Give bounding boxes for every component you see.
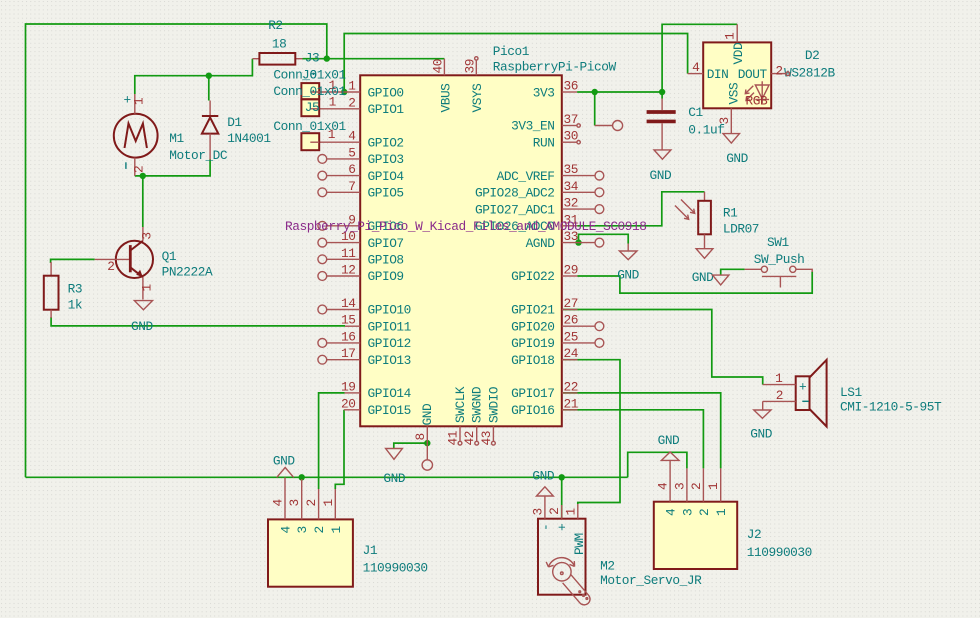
ground IC pin8	[383, 449, 405, 486]
pin 8 GND	[413, 403, 435, 470]
svg-text:Q1: Q1	[162, 249, 177, 264]
svg-text:11: 11	[341, 246, 356, 261]
svg-text:Conn_01x01: Conn_01x01	[273, 119, 346, 134]
svg-text:3: 3	[680, 509, 695, 516]
svg-text:22: 22	[564, 379, 578, 394]
LED D2 WS2812B body	[703, 42, 835, 108]
motor M2 Motor_Servo_JR body	[538, 519, 702, 595]
junction 3V3 node B	[659, 89, 665, 95]
svg-text:21: 21	[564, 396, 579, 411]
connector J2 110990030	[654, 502, 812, 569]
svg-text:4: 4	[664, 508, 679, 516]
node sheet field text purple	[285, 219, 646, 234]
svg-text:GND: GND	[383, 471, 405, 486]
pin 39 VSYS	[462, 57, 485, 113]
wire top-left perimeter net	[26, 24, 327, 477]
svg-text:4: 4	[656, 482, 671, 490]
wire 3V3 junction to C1 top	[661, 92, 663, 99]
pin 16 GPIO12	[318, 329, 411, 351]
pin 31 GPIO26_ADC0	[475, 212, 579, 234]
svg-text:3V3_EN: 3V3_EN	[511, 119, 554, 134]
svg-text:GND: GND	[131, 319, 153, 334]
pin 43 SWDIO	[479, 386, 502, 445]
svg-text:1: 1	[329, 526, 344, 534]
LED symbol inside D2	[745, 81, 769, 108]
svg-text:SWDIO: SWDIO	[486, 386, 501, 423]
svg-text:GPIO22: GPIO22	[511, 269, 554, 284]
svg-text:32: 32	[564, 196, 578, 211]
svg-text:GND: GND	[658, 433, 680, 448]
junction GND bus J1 node	[299, 474, 305, 480]
svg-text:M2: M2	[600, 559, 614, 574]
svg-text:WS2812B: WS2812B	[784, 65, 835, 80]
pin 3 of M2 (-)	[530, 496, 553, 531]
ground Q1 emitter	[131, 301, 153, 334]
connector J3 Conn_01x01	[273, 51, 346, 100]
svg-text:GPIO8: GPIO8	[368, 253, 404, 268]
pin 27 GPIO21	[511, 296, 578, 318]
pin 3 of J1	[287, 479, 310, 534]
wire junction to Q1 collector	[142, 176, 144, 227]
svg-text:1: 1	[329, 95, 337, 110]
pin 1 of J2	[706, 468, 729, 516]
svg-text:27: 27	[564, 296, 578, 311]
wire GPIO26_ADC0 to R1 top	[578, 192, 705, 226]
pin 1 of J1	[321, 489, 344, 534]
svg-text:GPIO14: GPIO14	[368, 386, 412, 401]
resistor R2 value 18	[252, 18, 302, 65]
svg-text:1k: 1k	[68, 298, 83, 313]
pin 25 GPIO19	[511, 329, 604, 351]
svg-text:12: 12	[341, 263, 355, 278]
svg-text:17: 17	[341, 346, 355, 361]
svg-text:GPIO2: GPIO2	[368, 135, 404, 150]
pin 1 GPIO0	[344, 79, 403, 101]
pin 2 DOUT of D2	[771, 64, 789, 79]
svg-text:CMI-1210-5-95T: CMI-1210-5-95T	[840, 399, 942, 414]
servo horn inside M2	[546, 558, 590, 605]
wire J3 junction to VBUS	[303, 58, 445, 60]
svg-text:30: 30	[564, 129, 578, 144]
svg-text:GPIO21: GPIO21	[511, 303, 555, 318]
wire GND bus to M2 pin2	[561, 477, 563, 518]
wire junction to D1 top	[208, 76, 210, 101]
svg-text:VDD: VDD	[731, 42, 746, 64]
svg-text:1: 1	[321, 499, 336, 507]
wire 3V3 to VDD riser	[662, 24, 737, 92]
svg-text:PWM: PWM	[572, 533, 587, 555]
pin 29 GPIO22	[511, 263, 578, 285]
svg-text:1: 1	[714, 508, 729, 516]
pin 15 GPIO11	[341, 313, 412, 335]
svg-text:M1: M1	[169, 131, 184, 146]
svg-text:SWGND: SWGND	[470, 386, 485, 423]
ground AGND net	[617, 244, 639, 283]
svg-text:RUN: RUN	[533, 135, 555, 150]
svg-text:J2: J2	[747, 527, 761, 542]
svg-text:RGB: RGB	[746, 94, 768, 109]
wire 3V3 net	[577, 91, 662, 93]
wire GPIO17 to J2 pin1	[563, 393, 721, 469]
svg-text:R2: R2	[268, 18, 282, 33]
svg-text:1: 1	[132, 97, 147, 105]
junction J3 node	[324, 55, 330, 61]
pin 1 of M2 (PWM)	[563, 504, 587, 555]
pin 2 of J2	[689, 468, 712, 516]
svg-text:GND: GND	[692, 270, 714, 285]
junction M1 top node	[206, 73, 212, 79]
svg-text:42: 42	[462, 431, 477, 445]
wire M1 bottom to D1 bottom	[135, 160, 210, 176]
svg-text:2: 2	[348, 95, 355, 110]
wire GPIO22 to SW1	[578, 272, 813, 294]
svg-text:110990030: 110990030	[363, 561, 428, 576]
svg-text:4: 4	[692, 60, 700, 75]
pin 21 GPIO16	[511, 396, 579, 418]
pin 35 ADC_VREF	[497, 162, 604, 184]
svg-text:20: 20	[341, 396, 355, 411]
svg-text:34: 34	[564, 179, 579, 194]
pin 4 GPIO2	[319, 129, 403, 151]
pin 26 GPIO20	[511, 313, 604, 335]
svg-text:15: 15	[341, 313, 355, 328]
ground J1 pin4	[273, 454, 295, 478]
svg-text:GPIO16: GPIO16	[511, 403, 554, 418]
svg-text:GPIO1: GPIO1	[368, 102, 405, 117]
svg-text:GPIO20: GPIO20	[511, 319, 554, 334]
pin 40 VBUS	[431, 59, 454, 113]
pin 10 GPIO7	[318, 229, 404, 251]
svg-text:4: 4	[348, 129, 356, 144]
svg-text:8: 8	[413, 433, 428, 440]
svg-text:GPIO0: GPIO0	[368, 85, 404, 100]
pin 30 RUN	[533, 129, 581, 151]
svg-text:DOUT: DOUT	[738, 67, 768, 82]
svg-text:SW1: SW1	[767, 235, 789, 250]
svg-text:SWCLK: SWCLK	[453, 386, 468, 423]
svg-text:2: 2	[132, 166, 147, 173]
svg-text:VBUS: VBUS	[438, 83, 453, 113]
diode D1 1N4001	[202, 101, 271, 160]
svg-text:2: 2	[697, 509, 712, 516]
svg-text:3: 3	[672, 483, 687, 490]
pin 37 3V3_EN	[511, 112, 580, 134]
svg-text:1: 1	[723, 32, 738, 40]
svg-text:GPIO4: GPIO4	[368, 169, 405, 184]
junction AGND node	[575, 239, 581, 245]
svg-text:Raspberry_Pi_Pico_W_Kicad_File: Raspberry_Pi_Pico_W_Kicad_Files_and_AMOD…	[285, 219, 646, 234]
svg-text:1: 1	[706, 482, 721, 490]
wire GND pin8 to ground	[394, 443, 428, 448]
svg-text:Motor_DC: Motor_DC	[169, 148, 228, 163]
svg-text:2: 2	[775, 64, 782, 79]
pin 34 GPIO28_ADC2	[475, 179, 604, 201]
svg-text:4: 4	[279, 526, 294, 534]
pin 5 GPIO3	[318, 145, 404, 167]
wire R3 bottom to GPIO11	[51, 317, 345, 326]
motor M1 Motor_DC	[114, 93, 228, 176]
svg-text:ADC_VREF: ADC_VREF	[497, 169, 555, 184]
svg-text:5: 5	[348, 145, 355, 160]
svg-text:6: 6	[348, 162, 355, 177]
pin 42 SWGND	[462, 386, 485, 445]
svg-text:2: 2	[689, 483, 704, 490]
pin 4 DIN of D2	[688, 60, 704, 75]
ground SW1	[713, 275, 729, 285]
svg-text:Motor_Servo_JR: Motor_Servo_JR	[600, 573, 702, 588]
svg-text:GND: GND	[750, 427, 772, 442]
wire 3V3 junction drop to 3V3_EN stub	[594, 92, 596, 126]
svg-text:D1: D1	[227, 115, 242, 130]
wire Q1 base to R3 top	[51, 259, 95, 263]
pin 9 GPIO6	[318, 212, 404, 234]
pin 14 GPIO10	[318, 296, 411, 318]
svg-text:J5: J5	[305, 100, 319, 115]
svg-text:GPIO3: GPIO3	[368, 152, 404, 167]
wire GPIO15 to J1 pin1	[335, 410, 344, 489]
op-amp U1 Pico1 RaspberryPi-PicoW body	[360, 44, 616, 426]
svg-text:VSS: VSS	[727, 82, 742, 104]
svg-text:40: 40	[431, 59, 446, 73]
ground LS1	[750, 410, 772, 442]
svg-text:GND: GND	[726, 151, 748, 166]
pin 2 of J1	[304, 489, 327, 534]
svg-text:2: 2	[312, 526, 327, 533]
pin 22 GPIO17	[511, 379, 578, 401]
svg-text:29: 29	[564, 263, 578, 278]
svg-text:2: 2	[107, 259, 114, 274]
connector J1 110990030	[268, 519, 428, 586]
svg-text:35: 35	[564, 162, 578, 177]
svg-text:GPIO11: GPIO11	[368, 319, 412, 334]
wire GPIO21 to LS1 pin1	[563, 310, 763, 385]
svg-text:1: 1	[139, 284, 154, 292]
svg-text:1: 1	[775, 371, 783, 386]
svg-text:3: 3	[139, 232, 154, 239]
pin 2 GPIO1	[319, 95, 404, 117]
svg-text:GPIO17: GPIO17	[511, 386, 554, 401]
ground D2 VSS	[723, 134, 749, 166]
svg-text:GPIO9: GPIO9	[368, 269, 404, 284]
svg-text:3: 3	[530, 508, 545, 515]
svg-text:1N4001: 1N4001	[227, 131, 271, 146]
pin 4 of J2	[656, 460, 679, 516]
svg-text:GND: GND	[617, 268, 639, 283]
svg-text:1: 1	[563, 508, 578, 516]
svg-text:VSYS: VSYS	[470, 83, 485, 113]
svg-text:J3: J3	[305, 51, 319, 66]
svg-text:19: 19	[341, 379, 355, 394]
wire GPIO16 to J2 pin2	[563, 410, 703, 469]
pin 3 of J2	[672, 468, 695, 516]
ground J2 pin4	[658, 433, 680, 461]
svg-text:GPIO15: GPIO15	[368, 403, 411, 418]
svg-text:18: 18	[272, 36, 286, 51]
svg-text:GND: GND	[420, 403, 435, 425]
svg-text:3: 3	[287, 499, 302, 506]
node 3V3_EN dangling wire marker	[595, 121, 623, 131]
svg-text:R1: R1	[723, 205, 738, 220]
svg-text:GPIO28_ADC2: GPIO28_ADC2	[475, 186, 555, 201]
svg-text:GPIO13: GPIO13	[368, 353, 411, 368]
svg-text:GND: GND	[650, 168, 672, 183]
pin 1 VDD of D2	[723, 24, 738, 42]
junction GND pin8 node	[424, 440, 430, 446]
svg-text:43: 43	[479, 431, 494, 445]
pin 17 GPIO13	[318, 346, 411, 368]
svg-text:1: 1	[328, 127, 336, 142]
svg-text:3: 3	[717, 117, 732, 124]
svg-text:LS1: LS1	[840, 385, 862, 400]
capacitor C1 value 0.1uf	[647, 99, 725, 150]
svg-text:1: 1	[348, 79, 356, 94]
svg-text:GPIO5: GPIO5	[368, 186, 404, 201]
switch SW1 SW_Push	[745, 235, 813, 288]
junction GPIO0 node	[341, 89, 347, 95]
pin 11 GPIO8	[318, 246, 404, 268]
connector J6 Conn_01x01	[273, 119, 346, 150]
svg-text:R3: R3	[68, 282, 82, 297]
wire SW1 left to ground	[721, 269, 745, 275]
svg-text:GPIO18: GPIO18	[511, 353, 554, 368]
svg-text:GND: GND	[273, 454, 295, 469]
svg-text:25: 25	[564, 329, 578, 344]
ground R1	[692, 249, 714, 285]
svg-text:GPIO10: GPIO10	[368, 303, 411, 318]
svg-text:J6: J6	[302, 68, 316, 83]
svg-text:D2: D2	[805, 48, 819, 63]
svg-text:24: 24	[564, 346, 579, 361]
photoresistor R1 LDR07	[675, 192, 759, 249]
pin 36 3V3	[533, 79, 578, 101]
pin 4 of J1	[271, 477, 294, 533]
ground M2 pin3	[532, 468, 554, 496]
svg-text:GPIO7: GPIO7	[368, 236, 404, 251]
pin 6 GPIO4	[318, 162, 405, 184]
svg-text:PN2222A: PN2222A	[162, 265, 213, 280]
wire AGND to ground	[579, 234, 629, 243]
pin 20 GPIO15	[341, 396, 411, 418]
connector J5 Conn_01x01	[273, 84, 346, 116]
svg-text:RaspberryPi-PicoW: RaspberryPi-PicoW	[493, 60, 617, 75]
wire GND bus to J2 pin3	[628, 452, 687, 477]
svg-text:7: 7	[348, 179, 355, 194]
pin 2 of M2 (+)	[547, 505, 570, 531]
svg-text:110990030: 110990030	[747, 545, 812, 560]
svg-text:Pico1: Pico1	[493, 44, 530, 59]
wire GPIO0 riser to DIN net	[344, 34, 687, 93]
svg-text:3V3: 3V3	[533, 85, 555, 100]
pin 24 GPIO18	[511, 346, 579, 368]
pin 19 GPIO14	[341, 379, 412, 401]
svg-text:41: 41	[446, 430, 461, 445]
pin 41 SWCLK	[446, 386, 469, 445]
svg-text:36: 36	[564, 79, 578, 94]
svg-text:GPIO19: GPIO19	[511, 336, 554, 351]
svg-text:C1: C1	[688, 105, 703, 120]
resistor R3 value 1k	[44, 262, 83, 318]
wire bottom GND bus	[26, 476, 628, 478]
svg-text:GPIO27_ADC1: GPIO27_ADC1	[475, 202, 555, 217]
pin 3 VSS of D2	[717, 108, 732, 133]
svg-text:2: 2	[304, 499, 319, 506]
svg-text:37: 37	[564, 112, 578, 127]
pin 32 GPIO27_ADC1	[475, 196, 604, 218]
junction GND bus M2 node	[559, 474, 565, 480]
wire GPIO14 to J1 pin2	[319, 393, 345, 489]
pin 12 GPIO9	[318, 263, 404, 285]
svg-text:LDR07: LDR07	[723, 222, 759, 237]
svg-text:2: 2	[547, 508, 562, 515]
svg-text:GND: GND	[532, 468, 554, 483]
speaker LS1 CMI-1210-5-95T	[763, 360, 942, 427]
svg-text:SW_Push: SW_Push	[754, 252, 805, 267]
ground C1	[650, 150, 672, 183]
transistor Q1 PN2222A	[95, 227, 213, 300]
junction M1 bottom node	[140, 173, 146, 179]
svg-text:3: 3	[295, 526, 310, 533]
wire GPIO18 to M2 PWM	[563, 360, 620, 504]
pin 33 AGND	[526, 229, 604, 251]
svg-text:AGND: AGND	[526, 236, 556, 251]
svg-text:26: 26	[564, 313, 578, 328]
svg-text:+: +	[799, 380, 806, 395]
svg-text:GPIO12: GPIO12	[368, 336, 411, 351]
svg-text:14: 14	[341, 296, 356, 311]
junction 3V3 node A	[592, 89, 598, 95]
svg-text:+: +	[555, 524, 570, 531]
svg-text:2: 2	[776, 388, 783, 403]
svg-text:4: 4	[271, 499, 286, 507]
svg-text:16: 16	[341, 329, 355, 344]
pin 7 GPIO5	[318, 179, 404, 201]
svg-text:DIN: DIN	[707, 67, 729, 82]
svg-text:J1: J1	[363, 543, 378, 558]
wire M1 top to R2	[135, 59, 253, 94]
svg-text:-: -	[539, 524, 554, 531]
svg-text:39: 39	[462, 59, 477, 73]
svg-text:+: +	[124, 93, 131, 108]
